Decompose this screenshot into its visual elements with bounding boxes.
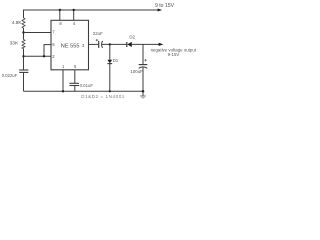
svg-text:33K: 33K <box>10 40 19 46</box>
wire D2 to output arrow <box>132 43 159 45</box>
node junction pin7 <box>22 31 24 33</box>
node junction pin4 rail <box>73 9 75 11</box>
wire pin 4 to rail <box>73 10 75 20</box>
capacitor C4 100uF <box>139 64 148 66</box>
wire C3 to D2 <box>102 43 127 45</box>
svg-text:1: 1 <box>62 64 65 69</box>
svg-text:8: 8 <box>59 21 62 26</box>
svg-text:22uF: 22uF <box>93 31 103 36</box>
wire pin 2 <box>24 55 52 57</box>
wire pin6 to pin2 vertical <box>43 45 45 57</box>
wire C4 to rail <box>142 67 144 91</box>
wire D1 branch upper <box>109 44 111 59</box>
capacitor C3 22uF <box>98 41 100 48</box>
svg-text:D1: D1 <box>113 58 119 63</box>
wire cap to bottom rail <box>23 72 25 91</box>
svg-text:D2: D2 <box>129 35 135 40</box>
svg-text:5: 5 <box>74 64 77 69</box>
node junction pin2 <box>22 55 24 57</box>
op-amp U1 NE 555 box <box>51 20 89 70</box>
node supply arrow <box>158 9 163 12</box>
wire pin 7 <box>24 32 52 34</box>
wire pin 5 down <box>74 70 76 84</box>
wire pin 3 output <box>89 43 99 45</box>
wire pin 6 stub <box>44 44 51 46</box>
node junction pin1 rail <box>62 90 64 92</box>
svg-text:4: 4 <box>73 21 76 26</box>
svg-text:2: 2 <box>52 54 55 59</box>
resistor 4.8K <box>22 18 25 28</box>
ground <box>142 91 144 96</box>
wire output branch down <box>142 44 144 64</box>
svg-text:0.01uF: 0.01uF <box>80 83 94 88</box>
wire C2 to rail <box>74 86 76 92</box>
wire D1 branch lower <box>109 64 111 92</box>
svg-text:4.8K: 4.8K <box>12 20 23 26</box>
diode D1 <box>107 60 112 63</box>
resistor 33K <box>22 39 25 48</box>
wire pin 8 to rail <box>59 10 61 20</box>
svg-text:0.022uF: 0.022uF <box>2 73 18 78</box>
wire left chain vertical top <box>23 10 25 19</box>
capacitor C1 0.022uF <box>19 69 28 71</box>
svg-text:6: 6 <box>52 42 55 47</box>
node output arrow <box>159 43 164 46</box>
wire below 33K <box>23 49 25 71</box>
wire pin 1 to bottom rail <box>62 70 64 92</box>
capacitor C4 100uF plus <box>144 59 146 61</box>
svg-text:9 to 15V: 9 to 15V <box>155 3 175 9</box>
svg-text:100uF: 100uF <box>130 69 143 74</box>
wire top supply rail <box>24 9 159 11</box>
wire between resistors <box>23 28 25 40</box>
svg-text:9-15V: 9-15V <box>168 52 180 57</box>
svg-text:3: 3 <box>82 43 85 48</box>
wire bottom ground rail <box>24 90 144 92</box>
node junction D1 rail <box>109 90 111 92</box>
node junction pin6/pin2 <box>43 55 45 57</box>
svg-text:7: 7 <box>52 30 55 35</box>
svg-text:D1&D2 = 1N4001: D1&D2 = 1N4001 <box>81 94 125 99</box>
svg-text:NE 555: NE 555 <box>61 43 80 49</box>
node junction D1 <box>109 43 111 45</box>
diode D2 <box>126 42 128 47</box>
node junction pin8 rail <box>59 9 61 11</box>
capacitor C2 0.01uF <box>69 82 79 84</box>
node junction ground <box>142 90 145 93</box>
